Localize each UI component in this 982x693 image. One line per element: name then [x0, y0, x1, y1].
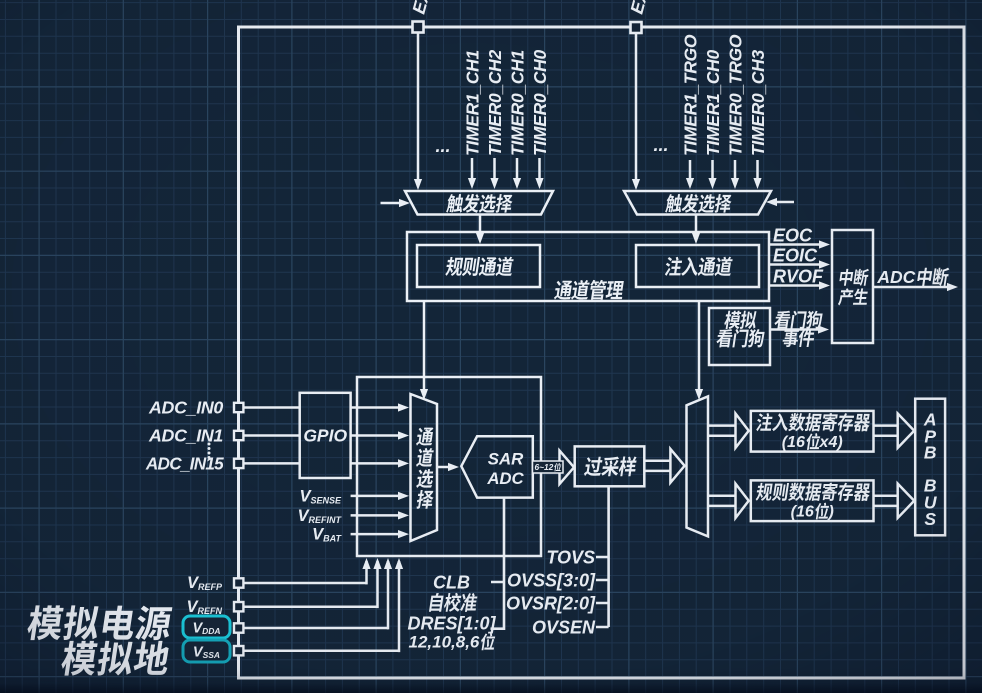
terminal ADC_IN15 — [234, 459, 243, 468]
terminal ADC_IN0 — [234, 403, 243, 412]
block arrow oversampler to demux — [644, 449, 684, 483]
terminal ADC_IN1 — [234, 431, 243, 440]
wire TIMER0_TRGO to trigger-select 2 — [731, 160, 739, 189]
label TIMER0_CH1 (rotated) — [507, 50, 527, 156]
wire EXTI1 to trigger-select 1 — [414, 33, 422, 190]
analog watchdog box — [709, 308, 770, 365]
label VREFP — [187, 574, 223, 592]
terminal square EXTI input 2 — [631, 22, 642, 33]
label TIMER0_CH3 (rotated) — [748, 50, 768, 156]
wire EXTI2 to trigger-select 2 — [632, 34, 640, 191]
wire VREFN to ADC core — [243, 558, 381, 608]
wire trigger1 to regular channel — [476, 215, 484, 245]
label VREFN — [186, 598, 222, 616]
wire trigger2 to injected channel — [692, 215, 700, 245]
wire GPIO to channel-select — [351, 459, 409, 467]
wire TIMER0_CH0 to trigger-select 1 — [535, 158, 543, 189]
label TIMER0_CH2 (rotated) — [485, 50, 505, 156]
wire GPIO to channel-select — [351, 403, 409, 411]
label TIMER1_CH0 (rotated) — [703, 50, 723, 156]
wire ADC_IN0 to GPIO — [243, 406, 299, 409]
wire channel-mgmt to channel-select mux — [420, 301, 428, 400]
label VSENSE — [299, 487, 342, 505]
wire channel-select to SAR ADC — [437, 463, 459, 471]
label TIMER1_CH1 (rotated) — [462, 50, 482, 156]
SAR ADC block — [461, 436, 533, 497]
wire EOIC — [769, 246, 830, 269]
oversampler box — [575, 446, 645, 486]
trigger-select mux 2 — [624, 191, 771, 215]
label CLB — [433, 573, 470, 593]
wire TIMER1_TRGO to trigger-select 2 — [686, 160, 694, 189]
trigger-select mux 1 — [405, 191, 553, 215]
label dots group1 — [435, 136, 450, 156]
wire TIMER0_CH2 to trigger-select 1 — [490, 158, 498, 189]
wire TIMER1_CH0 to trigger-select 2 — [708, 160, 716, 189]
wire ADC_IN15 to GPIO — [243, 462, 299, 465]
label TIMER1_TRGO (rotated) — [680, 34, 700, 156]
block arrow injected reg to APB — [874, 414, 915, 448]
wire TIMER0_CH1 to trigger-select 1 — [513, 158, 521, 189]
output demux — [687, 396, 709, 536]
label self-calibration — [429, 593, 478, 612]
ADC module outer boundary box — [239, 27, 965, 678]
bracket oversample config — [596, 486, 609, 627]
dots ADC_IN — [208, 443, 211, 460]
label EXTI 1 (rotated, clipped) — [409, 0, 435, 16]
pin VDDA cyan box — [183, 616, 230, 638]
label analog ground — [60, 641, 172, 676]
label TIMER0_TRGO (rotated) — [725, 34, 745, 156]
wire TIMER1_CH1 to trigger-select 1 — [468, 158, 476, 189]
block arrow demux to injected-data reg — [708, 414, 749, 448]
regular data register box — [751, 480, 874, 521]
ADC core box — [357, 377, 541, 556]
label analog power — [26, 605, 174, 640]
label resolutions — [408, 633, 496, 652]
wire GPIO to channel-select — [351, 431, 409, 439]
interrupt generation box — [832, 230, 873, 343]
block arrow regular reg to APB — [874, 484, 915, 518]
label OVSEN — [532, 618, 596, 638]
wire EOC — [769, 226, 830, 249]
label OVSR — [506, 594, 596, 614]
label ADC_IN1 — [148, 426, 223, 446]
block arrow SAR to oversampler — [533, 451, 574, 485]
stub arrow into trigger-select 2 — [766, 198, 794, 206]
wire channel-mgmt to output demux — [695, 301, 703, 400]
wire ADC_IN1 to GPIO — [243, 434, 299, 437]
label VBAT — [312, 526, 342, 544]
terminal VSSA — [234, 646, 243, 655]
wire VSSA to ADC core — [243, 558, 403, 652]
label dots group2 — [653, 135, 668, 155]
wire VDDA to ADC core — [243, 558, 392, 629]
label ADC_IN15 — [145, 453, 224, 473]
label VREFINT — [297, 507, 342, 525]
GPIO box — [300, 393, 351, 478]
wire RVOF — [769, 267, 830, 290]
terminal square EXTI input 1 — [413, 22, 424, 33]
terminal VDDA — [234, 623, 243, 632]
label 6~12bit box — [533, 461, 564, 473]
channel-select mux — [411, 394, 438, 541]
APB BUS box — [915, 399, 945, 536]
label OVSS — [507, 571, 596, 591]
wire TIMER0_CH3 to trigger-select 2 — [753, 160, 761, 189]
wire ADC interrupt out — [873, 267, 958, 291]
stub arrow into trigger-select 1 — [381, 199, 411, 207]
label DRES — [407, 614, 496, 634]
bracket calibration — [491, 498, 505, 629]
block arrow demux to regular-data reg — [708, 484, 749, 518]
wire VREFINT to channel-select — [351, 511, 409, 519]
label ADC_IN0 — [148, 398, 223, 418]
regular channel box — [417, 245, 540, 287]
label TOVS — [546, 548, 595, 568]
terminal VREFN — [234, 602, 243, 611]
wire VREFP to ADC core — [243, 558, 370, 584]
pin VSSA cyan box — [183, 640, 230, 662]
wire VBAT to channel-select — [351, 530, 409, 538]
terminal VREFP — [234, 578, 243, 587]
injected data register box — [751, 411, 874, 452]
wire watchdog event — [770, 311, 829, 347]
label TIMER0_CH0 (rotated) — [530, 50, 550, 156]
wire VSENSE to channel-select — [351, 492, 409, 500]
channel management box — [407, 232, 769, 301]
injected channel box — [636, 245, 759, 287]
label EXTI 2 (rotated, clipped) — [627, 0, 653, 16]
